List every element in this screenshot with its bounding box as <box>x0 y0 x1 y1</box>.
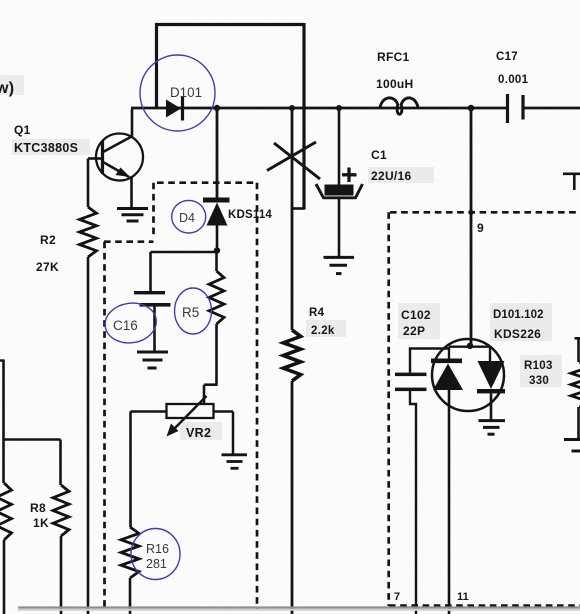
svg-text:1K: 1K <box>33 516 49 530</box>
svg-text:VR2: VR2 <box>186 426 211 440</box>
svg-text:C102: C102 <box>401 308 431 322</box>
svg-text:330: 330 <box>529 375 549 387</box>
svg-text:KTC3880S: KTC3880S <box>14 141 78 155</box>
svg-text:R4: R4 <box>309 307 325 319</box>
svg-text:281: 281 <box>146 557 167 571</box>
svg-text:0.001: 0.001 <box>498 74 529 86</box>
svg-text:R5: R5 <box>182 305 199 320</box>
svg-text:R103: R103 <box>524 360 553 372</box>
svg-text:C1: C1 <box>371 148 387 162</box>
svg-text:22U/16: 22U/16 <box>371 169 412 183</box>
svg-text:7: 7 <box>394 591 400 603</box>
svg-text:2.2k: 2.2k <box>311 325 335 337</box>
svg-text:D4: D4 <box>179 211 195 225</box>
svg-text:Q1: Q1 <box>14 123 31 137</box>
svg-text:R8: R8 <box>30 501 46 515</box>
svg-text:D101.102: D101.102 <box>493 309 544 321</box>
svg-text:w): w) <box>0 80 14 97</box>
svg-text:9: 9 <box>477 221 484 235</box>
svg-text:R16: R16 <box>146 542 169 556</box>
svg-text:11: 11 <box>457 591 469 603</box>
svg-text:C16: C16 <box>113 318 138 333</box>
svg-text:R2: R2 <box>40 233 56 247</box>
svg-text:100uH: 100uH <box>376 77 414 91</box>
svg-text:D101: D101 <box>170 85 202 100</box>
svg-text:RFC1: RFC1 <box>377 50 410 64</box>
svg-text:KDS114: KDS114 <box>228 209 272 221</box>
svg-text:C17: C17 <box>496 51 518 63</box>
svg-text:22P: 22P <box>403 324 425 338</box>
svg-text:KDS226: KDS226 <box>494 327 541 341</box>
svg-text:27K: 27K <box>36 260 59 274</box>
